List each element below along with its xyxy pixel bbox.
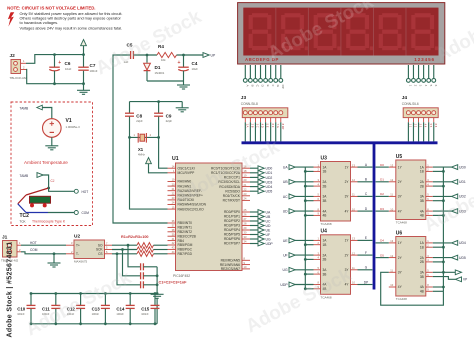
svg-text:UE: UE — [283, 239, 288, 243]
svg-text:D1: D1 — [380, 178, 384, 182]
svg-text:Adobe Stock | #525674831: Adobe Stock | #525674831 — [6, 242, 13, 338]
svg-text:RD7/PSP7: RD7/PSP7 — [224, 242, 240, 246]
svg-text:100nF: 100nF — [116, 312, 124, 316]
svg-text:RB1/INT1: RB1/INT1 — [178, 226, 193, 230]
svg-text:1B: 1B — [420, 245, 424, 249]
svg-text:10uF: 10uF — [192, 67, 199, 71]
svg-text:UDP: UDP — [280, 283, 288, 287]
svg-text:J3: J3 — [241, 95, 247, 101]
svg-text:D1: D1 — [155, 65, 161, 70]
svg-text:CJ: CJ — [51, 179, 55, 183]
svg-text:UC: UC — [266, 219, 271, 223]
svg-text:RD1/PSP1: RD1/PSP1 — [224, 215, 240, 219]
svg-text:U3: U3 — [321, 155, 328, 161]
svg-text:UD: UD — [283, 210, 288, 214]
svg-text:1 A: 1 A — [245, 124, 249, 128]
svg-text:RD5/PSP5: RD5/PSP5 — [224, 233, 240, 237]
svg-text:100nF: 100nF — [141, 312, 149, 316]
svg-text:3B: 3B — [420, 275, 424, 279]
svg-text:D0: D0 — [380, 163, 384, 167]
svg-text:RD4/PSP4: RD4/PSP4 — [224, 228, 240, 232]
svg-text:4B: 4B — [323, 214, 327, 218]
svg-text:D2: D2 — [380, 192, 384, 196]
svg-text:4 4: 4 4 — [424, 124, 428, 128]
svg-text:Thermocouple Type K: Thermocouple Type K — [32, 220, 66, 224]
svg-text:TC2: TC2 — [20, 213, 30, 219]
svg-text:3B: 3B — [420, 199, 424, 203]
svg-text:RE2/CS/AN7: RE2/CS/AN7 — [221, 267, 240, 271]
svg-text:123456: 123456 — [414, 57, 435, 62]
svg-text:1B: 1B — [323, 243, 327, 247]
svg-text:RD2/PSP2: RD2/PSP2 — [224, 219, 240, 223]
svg-text:UD0: UD0 — [266, 167, 273, 171]
svg-text:DP: DP — [281, 85, 285, 89]
svg-text:T+: T+ — [76, 244, 80, 248]
svg-text:TBLOCK-M2: TBLOCK-M2 — [10, 76, 28, 80]
svg-text:T-: T- — [76, 252, 79, 256]
svg-text:UA: UA — [283, 166, 288, 170]
svg-text:UB: UB — [283, 180, 288, 184]
svg-text:UD3: UD3 — [266, 180, 273, 184]
svg-text:22pF: 22pF — [166, 119, 173, 123]
svg-text:D5: D5 — [380, 253, 384, 257]
svg-text:R1=R2=R3=100: R1=R2=R3=100 — [121, 235, 149, 239]
svg-text:TCK: TCK — [20, 220, 26, 224]
svg-text:CONN-SIL6: CONN-SIL6 — [402, 102, 419, 106]
svg-text:100nF: 100nF — [17, 312, 25, 316]
svg-text:Others voltages will destroy p: Others voltages will destroy parts and m… — [20, 17, 122, 21]
svg-text:5 5: 5 5 — [429, 124, 433, 128]
svg-text:MCLR/VPP: MCLR/VPP — [178, 171, 196, 175]
svg-text:RD3/PSP3: RD3/PSP3 — [224, 224, 240, 228]
svg-text:COM: COM — [30, 248, 38, 252]
svg-text:J2: J2 — [10, 53, 16, 59]
svg-text:U1: U1 — [172, 156, 179, 162]
svg-text:NOTE: CIRCUIT IS NOT VOLTAGE: NOTE: CIRCUIT IS NOT VOLTAGE LIMITED. — [7, 5, 95, 10]
svg-text:COM: COM — [82, 211, 90, 215]
svg-text:Only 5V stabilized power suppl: Only 5V stabilized power supplies are al… — [20, 12, 123, 16]
svg-text:RC6/TX/CK: RC6/TX/CK — [223, 194, 241, 198]
svg-text:7 G: 7 G — [276, 124, 280, 128]
svg-text:1.00025e-3: 1.00025e-3 — [66, 125, 81, 129]
svg-text:10k: 10k — [161, 58, 166, 62]
svg-text:UF: UF — [283, 254, 288, 258]
svg-text:3B: 3B — [323, 199, 327, 203]
svg-text:RB6/PGC: RB6/PGC — [178, 248, 193, 252]
svg-text:TCA468: TCA468 — [396, 221, 407, 225]
svg-text:C4: C4 — [192, 61, 198, 66]
svg-text:TCA468: TCA468 — [321, 222, 332, 226]
svg-text:10uF: 10uF — [65, 67, 72, 71]
svg-text:RB4: RB4 — [178, 239, 185, 243]
svg-text:TAMB: TAMB — [20, 106, 29, 110]
svg-text:HOT: HOT — [82, 190, 89, 194]
svg-text:RB5/PGM: RB5/PGM — [178, 243, 193, 247]
svg-text:B: B — [251, 85, 255, 87]
svg-text:MAX6675: MAX6675 — [74, 260, 88, 264]
svg-text:RB7/PGD: RB7/PGD — [178, 252, 193, 256]
svg-text:1N4001: 1N4001 — [155, 71, 165, 75]
svg-text:UB: UB — [266, 215, 271, 219]
svg-text:3 C: 3 C — [256, 124, 260, 128]
svg-text:4B: 4B — [420, 290, 424, 294]
svg-text:UD2: UD2 — [266, 176, 273, 180]
svg-text:1B: 1B — [323, 170, 327, 174]
svg-text:1 1: 1 1 — [409, 124, 413, 128]
svg-text:UG: UG — [283, 268, 288, 272]
svg-text:6 6: 6 6 — [434, 124, 438, 128]
svg-text:1B: 1B — [420, 170, 424, 174]
svg-text:C6: C6 — [65, 61, 71, 66]
svg-text:X1: X1 — [138, 147, 144, 152]
svg-text:C8: C8 — [136, 113, 142, 118]
svg-text:RD6/PSP6: RD6/PSP6 — [224, 237, 240, 241]
svg-text:TAMB: TAMB — [20, 174, 29, 178]
svg-text:UD5: UD5 — [266, 190, 273, 194]
svg-text:UD4: UD4 — [459, 241, 466, 245]
svg-text:D4: D4 — [380, 239, 384, 243]
svg-text:UD0: UD0 — [459, 165, 466, 169]
svg-text:2B: 2B — [420, 260, 424, 264]
svg-text:E: E — [365, 236, 367, 240]
svg-text:C15: C15 — [141, 306, 150, 311]
svg-text:A: A — [246, 85, 250, 87]
svg-text:F: F — [271, 85, 275, 87]
svg-text:V1: V1 — [66, 118, 72, 124]
svg-text:Voltages above 24V may result: Voltages above 24V may result in some ci… — [20, 27, 123, 31]
svg-text:TCA468: TCA468 — [396, 297, 407, 301]
svg-text:UD5: UD5 — [459, 256, 466, 260]
svg-text:UA: UA — [266, 210, 271, 214]
svg-text:UP: UP — [211, 54, 216, 58]
svg-text:4 D: 4 D — [261, 124, 265, 128]
svg-text:2 B: 2 B — [250, 124, 254, 128]
svg-text:B: B — [365, 178, 367, 182]
svg-text:RB3/CCP2B: RB3/CCP2B — [178, 234, 197, 238]
svg-text:PIC16F452: PIC16F452 — [173, 274, 190, 278]
svg-text:UD: UD — [266, 224, 271, 228]
svg-text:8 DP: 8 DP — [281, 124, 285, 130]
svg-text:J4: J4 — [402, 95, 408, 101]
svg-text:3 3: 3 3 — [419, 124, 423, 128]
svg-text:4MHz: 4MHz — [138, 153, 145, 157]
svg-text:C14: C14 — [116, 306, 125, 311]
svg-text:RB2/INT2: RB2/INT2 — [178, 230, 193, 234]
svg-text:5 E: 5 E — [266, 124, 270, 128]
svg-text:2B: 2B — [420, 184, 424, 188]
svg-text:OSC1/CLKI: OSC1/CLKI — [178, 166, 195, 170]
svg-text:UDP: UDP — [266, 242, 274, 246]
svg-text:D3: D3 — [380, 207, 384, 211]
svg-text:2 2: 2 2 — [414, 124, 418, 128]
svg-text:C1=C2=C3=1nF: C1=C2=C3=1nF — [159, 280, 188, 284]
svg-text:C9: C9 — [166, 113, 172, 118]
svg-text:100nF: 100nF — [92, 312, 100, 316]
svg-text:2B: 2B — [323, 184, 327, 188]
svg-text:22pF: 22pF — [136, 119, 143, 123]
svg-text:U2: U2 — [74, 234, 80, 240]
svg-text:to hazardous voltages.: to hazardous voltages. — [20, 21, 59, 25]
svg-text:UE: UE — [266, 228, 271, 232]
svg-text:UD1: UD1 — [459, 180, 466, 184]
svg-text:UG: UG — [266, 237, 271, 241]
svg-text:U5: U5 — [396, 154, 403, 160]
svg-text:Ambient Temperature: Ambient Temperature — [24, 160, 68, 165]
svg-text:U6: U6 — [396, 230, 403, 236]
svg-text:RC7/RX/DT: RC7/RX/DT — [223, 199, 240, 203]
svg-text:VP: VP — [463, 278, 467, 282]
svg-text:CONN-SIL8: CONN-SIL8 — [241, 102, 258, 106]
svg-text:F: F — [365, 251, 367, 255]
svg-text:J1: J1 — [2, 235, 8, 241]
svg-text:RB0/INT0: RB0/INT0 — [178, 221, 193, 225]
svg-text:HOT: HOT — [30, 241, 37, 245]
svg-text:2B: 2B — [323, 258, 327, 262]
svg-text:UC: UC — [283, 195, 288, 199]
svg-text:UD4: UD4 — [266, 185, 273, 189]
svg-text:UF: UF — [266, 233, 271, 237]
svg-text:CS: CS — [98, 252, 102, 256]
svg-text:+: + — [58, 60, 61, 66]
svg-text:+: + — [178, 60, 181, 66]
svg-text:RC5/SDO: RC5/SDO — [225, 189, 240, 193]
svg-text:DP: DP — [364, 280, 368, 284]
svg-text:RD0/PSP0: RD0/PSP0 — [224, 210, 240, 214]
svg-text:6 F: 6 F — [271, 124, 275, 128]
svg-text:UD1: UD1 — [266, 171, 273, 175]
svg-text:C10: C10 — [17, 306, 26, 311]
svg-text:U4: U4 — [321, 229, 328, 235]
svg-text:E: E — [266, 85, 270, 87]
